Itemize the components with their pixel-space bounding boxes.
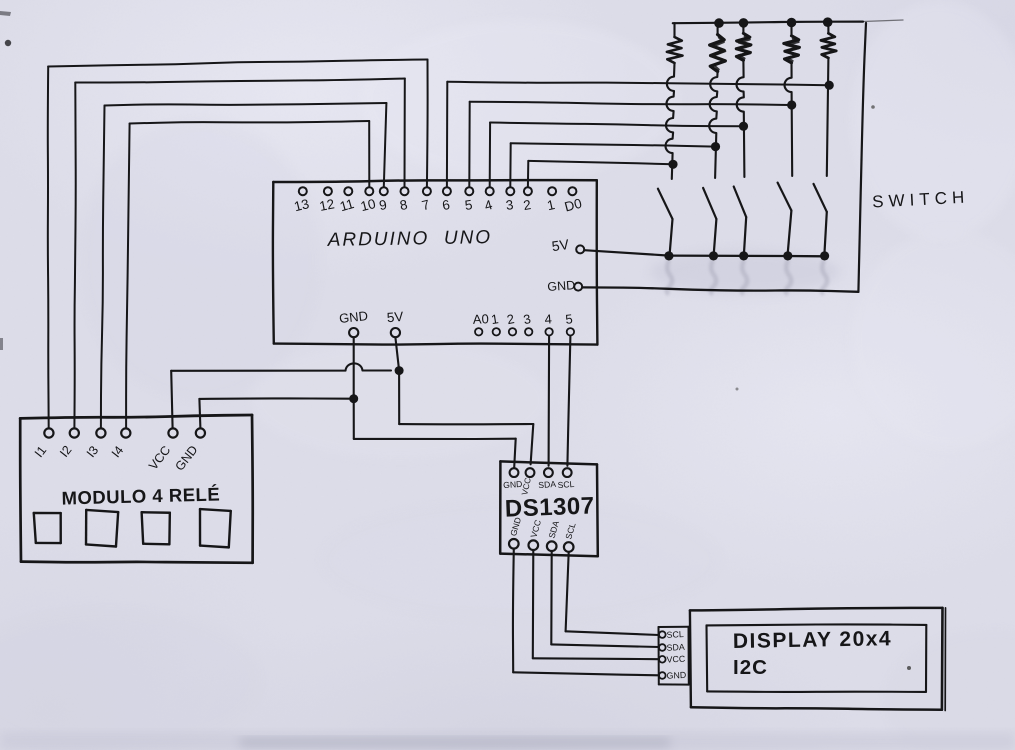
wire pin8 to I2 <box>74 79 404 429</box>
display I2C connector <box>659 627 689 685</box>
resistor R4 <box>784 22 800 63</box>
arduino digital pin 6 <box>441 187 451 213</box>
switch SW3 <box>734 187 747 257</box>
svg-text:5V: 5V <box>386 309 404 325</box>
relay module outline <box>20 415 253 563</box>
wire R1 lead to SW1 <box>665 63 674 179</box>
arduino bottom 5V pin <box>386 309 404 337</box>
arduino 5V pin (right) <box>551 236 584 254</box>
junction 5V/relay VCC <box>395 366 404 375</box>
label DISPLAY 20x4 I2C <box>733 627 893 679</box>
svg-text:12: 12 <box>318 196 336 214</box>
arduino digital pin 11 <box>338 187 356 214</box>
relay pin I3 <box>84 428 106 460</box>
arduino digital pin 8 <box>399 187 409 213</box>
wire DS1307 GND to display GND <box>513 549 659 676</box>
label SWITCH <box>872 187 970 211</box>
relay pin I1 <box>32 428 54 460</box>
wire R2 lead to SW2 <box>709 72 717 179</box>
arduino digital pin D0 <box>563 187 583 214</box>
wire pin7 to I1 <box>48 60 428 429</box>
resistor R1 <box>667 23 683 63</box>
arduino GND pin (right) <box>547 278 582 294</box>
arduino digital pin 10 <box>359 187 377 214</box>
relay K3 <box>142 512 171 545</box>
arduino analog pin 4 <box>544 311 553 335</box>
wire GND rail <box>582 287 858 291</box>
relay pin I4 <box>109 428 131 460</box>
arduino analog pin A0 <box>473 311 490 335</box>
arduino digital pin 12 <box>318 187 336 214</box>
junction top rail x791 <box>787 18 797 28</box>
wire R5 lead to SW5 <box>827 58 829 176</box>
arduino digital pin 2 <box>522 187 532 213</box>
relay pin GND <box>172 428 205 473</box>
relay K2 <box>85 510 118 547</box>
junction top rail x827 <box>823 17 833 27</box>
arduino digital pin 13 <box>293 187 311 214</box>
wire pin10 to I4 <box>126 121 369 428</box>
junction node R1/SW1 <box>668 160 677 169</box>
relay pin VCC <box>146 428 178 472</box>
resistor R5 <box>821 22 836 58</box>
svg-text:SDA: SDA <box>538 479 557 490</box>
resistor R3 <box>736 23 751 61</box>
junction SW4 common <box>783 251 792 260</box>
wire top rail <box>673 22 863 24</box>
relay K1 <box>34 512 62 544</box>
wire DS1307 VCC to display VCC <box>533 550 659 659</box>
arduino digital pin 3 <box>505 187 515 213</box>
svg-text:VCC: VCC <box>666 654 686 665</box>
wire right vertical to top rail <box>858 23 866 292</box>
wire A5 to DS1307 SCL <box>567 336 570 466</box>
arduino analog pin 3 <box>522 311 532 335</box>
wire pin6 to R5 node <box>447 82 829 187</box>
wire DS1307 SCL to display SCL <box>566 552 659 635</box>
svg-text:4: 4 <box>544 311 552 326</box>
wire 5V to switch common rail <box>584 250 824 256</box>
wire A4 to DS1307 SDA <box>548 336 551 466</box>
svg-text:ARDUINO UNO: ARDUINO UNO <box>327 227 493 251</box>
junction node R3/SW3 <box>739 122 748 131</box>
switch SW4 <box>778 183 792 256</box>
wire DS1307 SDA to display SDA <box>551 551 659 647</box>
label MODULO 4 RELE <box>61 483 220 508</box>
relay pin I2 <box>57 428 79 459</box>
wire R4 lead to SW4 <box>784 63 792 176</box>
relay K4 <box>199 509 231 547</box>
switch SW1 <box>658 189 673 256</box>
display connector pin GND <box>659 670 686 681</box>
display connector pin SCL <box>659 629 684 640</box>
svg-text:5V: 5V <box>551 236 571 254</box>
DS1307 bottom pin GND <box>508 516 523 549</box>
wire pin9 to I3 <box>101 103 387 428</box>
svg-text:5: 5 <box>565 311 574 327</box>
wire pin2 to R1 node <box>528 161 673 187</box>
junction SW1 common <box>664 251 673 260</box>
DS1307 bottom pin SDA <box>547 519 562 551</box>
svg-text:GND: GND <box>666 670 686 681</box>
junction top rail x719 <box>714 18 724 28</box>
DS1307 bottom pin SCL <box>563 521 577 551</box>
arduino digital pin 4 <box>483 187 495 213</box>
wire relay GND to arduino GND <box>199 398 349 428</box>
wire relay VCC to 5V <box>171 363 391 428</box>
junction SW3 common <box>739 251 748 260</box>
DS1307 outline <box>500 461 598 556</box>
label DS1307 <box>504 492 595 522</box>
arduino digital pin 7 <box>420 187 431 213</box>
wire arduino 5V down <box>395 337 533 464</box>
wire top rail faint extension <box>863 20 903 22</box>
DS1307 top pin GND <box>503 468 523 490</box>
switch SW5 <box>814 184 827 256</box>
display connector pin SDA <box>659 642 685 653</box>
wire arduino GND down <box>354 337 516 467</box>
svg-text:DISPLAY 20x4: DISPLAY 20x4 <box>733 627 893 653</box>
arduino analog pin 5 <box>565 311 574 335</box>
wire R3 lead to SW3 <box>736 60 744 177</box>
wire pin4 to R3 node <box>490 123 744 188</box>
svg-text:GND: GND <box>338 308 368 326</box>
svg-text:SCL: SCL <box>666 629 684 640</box>
arduino analog pin 2 <box>506 311 517 335</box>
junction node R2/SW2 <box>711 142 720 151</box>
display connector pin VCC <box>659 654 686 665</box>
wire pin5 to R4 node <box>469 102 791 187</box>
svg-text:SDA: SDA <box>666 642 685 653</box>
svg-text:GND: GND <box>547 278 576 294</box>
DS1307 top pin SDA <box>538 468 557 490</box>
arduino analog pin 1 <box>490 311 500 335</box>
junction GND/relay <box>349 394 358 403</box>
arduino digital pin 1 <box>546 187 557 213</box>
junction SW5 common <box>820 251 829 260</box>
arduino uno U1 outline <box>273 180 598 345</box>
display module outline <box>690 608 946 711</box>
svg-text:I2C: I2C <box>733 656 768 679</box>
junction node R5/SW5 <box>825 81 834 90</box>
DS1307 top pin SCL <box>557 468 575 490</box>
label ARDUINO UNO <box>327 227 493 251</box>
junction SW2 common <box>709 251 718 260</box>
arduino bottom GND pin <box>338 308 368 337</box>
svg-text:SCL: SCL <box>557 479 575 490</box>
junction top rail x743 <box>739 18 749 28</box>
svg-text:MODULO 4 RELÉ: MODULO 4 RELÉ <box>61 483 220 508</box>
svg-text:A0: A0 <box>473 311 490 327</box>
wire pin3 to R2 node <box>510 143 715 187</box>
DS1307 top pin VCC <box>519 468 534 496</box>
DS1307 bottom pin VCC <box>528 519 543 550</box>
arduino digital pin 9 <box>378 187 388 213</box>
display inner screen <box>707 624 927 692</box>
resistor R2 <box>710 23 726 72</box>
junction node R4/SW4 <box>787 100 796 109</box>
arduino digital pin 5 <box>464 187 474 213</box>
switch SW2 <box>703 188 716 256</box>
